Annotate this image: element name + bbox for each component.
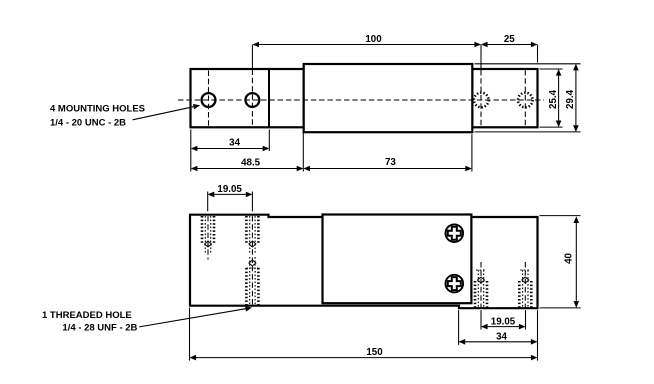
svg-text:73: 73 <box>385 157 396 168</box>
extension line 25.4 top <box>540 68 563 70</box>
extension line 29.4 top <box>475 63 581 65</box>
mounting hole 2 (side view, hidden) <box>245 216 248 244</box>
dimension 34 bottom <box>460 341 537 343</box>
svg-text:48.5: 48.5 <box>241 158 261 169</box>
extension line right edge top <box>537 45 539 63</box>
threaded hole right 1 (top view, hidden) <box>474 93 489 108</box>
mounting hole 1 (side view, hidden) <box>201 216 204 244</box>
extension line at middle block right <box>471 134 473 172</box>
centerline right hole column 2 <box>524 70 526 126</box>
right threaded hole 1 (side view, hidden) <box>474 281 477 308</box>
threaded hole right 2 (top view, hidden) <box>518 93 533 108</box>
extension line at hole col 2 <box>251 45 253 69</box>
dimension 29.4 <box>575 65 577 131</box>
top view middle block <box>304 64 473 132</box>
extension lines 19.05 top <box>207 192 209 212</box>
dimension 100 <box>253 44 480 46</box>
svg-text:1/4 - 20 UNC - 2B: 1/4 - 20 UNC - 2B <box>50 117 126 128</box>
svg-text:40: 40 <box>564 253 575 264</box>
leader to threaded hole <box>139 308 248 327</box>
dimension 25 <box>482 44 537 46</box>
svg-text:4 MOUNTING HOLES: 4 MOUNTING HOLES <box>50 104 145 115</box>
extension line at x=48.5 <box>302 131 304 172</box>
svg-text:34: 34 <box>496 331 507 342</box>
extension line at right hole col 1 <box>480 45 482 70</box>
centerline right hole column 1 <box>480 70 482 126</box>
screw 1 (phillips) <box>446 224 464 242</box>
svg-text:34: 34 <box>229 138 240 149</box>
svg-text:19.05: 19.05 <box>491 316 516 327</box>
extension line 29.4 bottom <box>475 131 581 133</box>
dimension 150 <box>191 357 537 359</box>
dimension 25.4 <box>558 70 560 126</box>
extension line 25.4 bottom <box>540 126 563 128</box>
extension line 34 bottom left <box>458 310 460 345</box>
dimension 19.05 top <box>209 193 252 195</box>
dimension 19.05 bottom <box>482 326 525 328</box>
leader to mounting hole <box>133 106 196 120</box>
mounting hole 1 (top view) <box>202 93 216 107</box>
dimension 48.5 <box>192 168 302 170</box>
top view right block <box>472 69 537 127</box>
extension line 150 left <box>189 308 191 361</box>
top view left block divider line <box>268 69 270 127</box>
extension line 40 top <box>540 215 581 217</box>
right threaded hole 2 (side view, hidden) <box>518 281 521 308</box>
extension line at x=34 <box>268 130 270 152</box>
extension line 34/150 right <box>537 310 539 361</box>
dimension 34 top view <box>192 148 268 150</box>
threaded hole 1/4-28 UNF (side view, hidden) <box>245 268 248 305</box>
dimension 73 <box>304 168 471 170</box>
top view horizontal centerline <box>178 99 544 101</box>
extension line 40 bottom <box>540 307 581 309</box>
top view left block <box>191 69 304 127</box>
extension line left edge (down) <box>190 130 192 172</box>
screw 2 (phillips) <box>446 275 464 293</box>
svg-text:150: 150 <box>366 347 383 358</box>
centerline mounting hole column 1 <box>208 71 210 127</box>
extension lines 19.05 bottom <box>480 310 482 329</box>
dimension 40 <box>575 217 577 306</box>
mounting hole 2 (top view) <box>246 93 260 107</box>
side view cover plate <box>323 215 472 304</box>
centerline mounting hole column 2 <box>251 70 253 127</box>
side view body outline <box>190 215 538 309</box>
svg-text:1/4 - 28 UNF - 2B: 1/4 - 28 UNF - 2B <box>62 323 137 334</box>
svg-text:29.4: 29.4 <box>565 89 576 109</box>
svg-text:100: 100 <box>365 34 382 45</box>
svg-text:1 THREADED HOLE: 1 THREADED HOLE <box>42 310 132 321</box>
svg-text:25: 25 <box>504 34 515 45</box>
svg-text:25.4: 25.4 <box>548 89 559 109</box>
svg-text:19.05: 19.05 <box>217 184 242 195</box>
